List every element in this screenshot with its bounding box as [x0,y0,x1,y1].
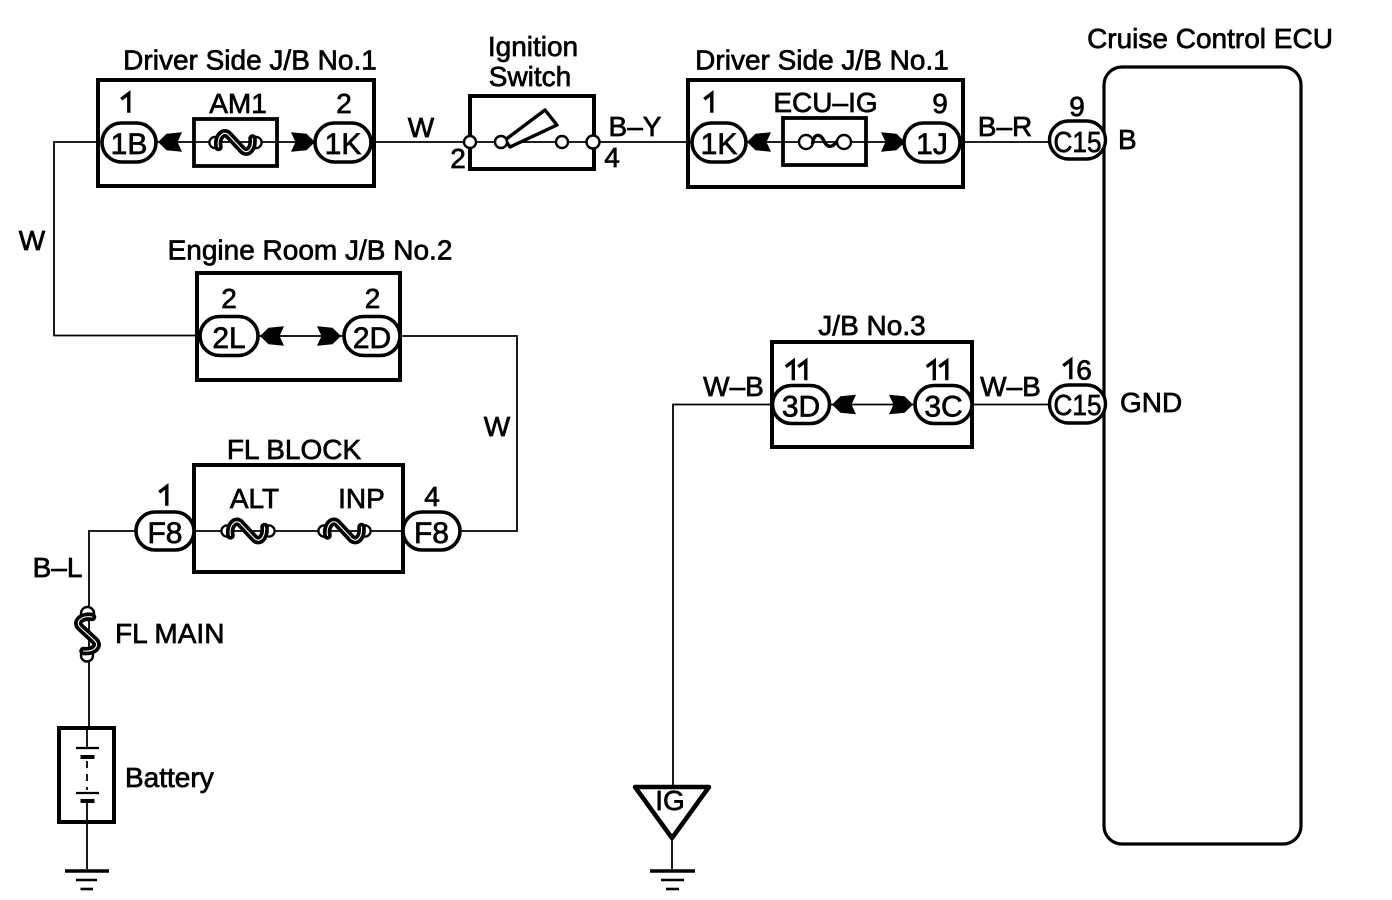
svg-text:W: W [19,225,46,256]
battery [59,728,214,822]
wire W: connector 1B to Engine Room J/B No.2 connector 2L [54,142,200,336]
svg-text:2L: 2L [212,322,245,355]
svg-text:Driver Side J/B No.1: Driver Side J/B No.1 [123,45,377,76]
svg-text:C15: C15 [1054,127,1102,159]
fuse ALT [221,483,279,540]
connector 3C [915,386,972,424]
svg-text:Switch: Switch [489,61,571,92]
svg-text:6: 6 [1076,355,1092,386]
wire label B-R [978,111,1032,142]
pin 1 label (right 1K) [704,94,712,113]
wire W-B: connector 3D to IG ground point [673,405,772,788]
wire: battery negative to ground [86,822,88,869]
pin 1 label (1B) [121,94,129,113]
svg-text:W–B: W–B [703,371,764,402]
ignition switch contact circles [464,136,600,149]
connector 1K (right J/B) [692,123,746,162]
svg-text:4: 4 [604,142,620,173]
svg-text:W: W [484,411,511,442]
svg-text:B–L: B–L [33,552,83,583]
svg-text:FL BLOCK: FL BLOCK [227,434,362,465]
pin 2 label (2D) [365,283,381,314]
svg-text:1K: 1K [701,128,738,161]
junction block: Engine Room J/B No.2 [168,235,453,381]
svg-text:INP: INP [338,483,385,514]
pin 1 label (F8 left) [159,487,167,506]
connector 1J [904,123,960,162]
wire B-R: connector 1J to ECU connector C15 pin 9 [960,141,1050,143]
wire: inside J/B No.3 [829,404,915,406]
wire: bus inside Driver Side J/B No.1 left (through fuse AM1) [156,141,315,143]
node B label [1118,124,1137,155]
svg-text:ECU–IG: ECU–IG [773,87,877,118]
junction block: FL BLOCK [194,434,403,572]
wire B-Y: ignition switch pin 4 to right J/B connector 1K [593,141,692,143]
svg-text:Ignition: Ignition [488,31,578,62]
svg-text:W: W [408,112,435,143]
arrow at right 1K [747,132,771,152]
svg-text:C15: C15 [1054,390,1102,422]
ignition switch [470,31,594,169]
svg-text:B–R: B–R [978,111,1032,142]
arrow at 2L [260,326,284,346]
ground point triangle IG [635,785,709,838]
svg-text:9: 9 [932,88,948,119]
svg-text:2: 2 [365,283,381,314]
wire: battery internal lead [86,728,88,822]
connector 1B [102,123,156,162]
wire W: connector 2D to FL BLOCK connector F8 pin 4 [400,336,517,531]
svg-text:Cruise Control ECU: Cruise Control ECU [1087,23,1333,54]
svg-text:F8: F8 [147,517,182,550]
connector F8 pin 4 [403,512,460,550]
connector 3D [773,386,830,424]
svg-text:9: 9 [1069,91,1085,122]
connector 2L [200,317,258,356]
svg-text:B: B [1118,124,1137,155]
fusible link FL MAIN [78,607,224,662]
wire label W (1K to switch) [408,112,435,143]
wire label B-L [33,552,83,583]
ground (IG) [650,871,695,889]
arrow at 1B [158,132,182,152]
svg-text:Battery: Battery [125,762,214,793]
fuse AM1 [194,88,277,166]
svg-text:F8: F8 [414,517,449,550]
fuse ECU-IG [773,87,877,165]
arrow at 1J [881,132,905,152]
pin 9 label (C15 top) [1069,91,1085,122]
wire: inside ignition switch [470,141,593,143]
svg-text:2: 2 [221,283,237,314]
svg-text:2: 2 [450,143,466,174]
svg-text:1J: 1J [916,128,948,161]
wire label B-Y [609,111,662,142]
arrow at 1K (left J/B) [291,132,315,152]
connector 1K (left J/B) [315,123,371,162]
pin 16 label (C15 bottom) [1063,355,1092,386]
arrow at 3D [832,395,856,415]
junction block: Driver Side J/B No.1 (right) [688,45,963,188]
pin 2 label (ignition switch) [450,143,466,174]
svg-text:AM1: AM1 [209,88,267,119]
ground (battery) [65,871,109,889]
svg-text:Driver Side J/B No.1: Driver Side J/B No.1 [695,45,949,76]
svg-text:B–Y: B–Y [609,111,662,142]
svg-text:2D: 2D [353,322,391,355]
wire label W-B (right) [980,371,1041,402]
wire label W (vertical, left) [19,225,46,256]
pin 4 label (ignition switch) [604,142,620,173]
pin 9 label (1J) [932,88,948,119]
connector F8 pin 1 [136,512,194,550]
pin 2 label (2L) [221,283,237,314]
wire W: connector 1K to ignition switch pin 2 [371,141,470,143]
node GND label [1120,387,1182,418]
svg-text:3C: 3C [924,391,962,424]
wire W-B: connector 3C to ECU connector C15 pin 16 [972,404,1050,406]
wire label W (vertical, right) [484,411,511,442]
wire: bus inside Driver Side J/B No.1 right (through fuse ECU-IG) [746,141,904,143]
pin 4 label (F8 right) [424,481,440,512]
svg-text:IG: IG [655,785,685,816]
svg-text:2: 2 [336,88,352,119]
connector 2D [344,317,400,356]
fuse INP [318,483,384,540]
ECU box: Cruise Control ECU [1087,23,1333,844]
wire label W-B (left) [703,371,764,402]
arrow at 3C [889,395,913,415]
wire: inside Engine Room J/B No.2 [259,335,344,337]
svg-text:1K: 1K [325,128,362,161]
arrow at 2D [317,326,341,346]
junction block: J/B No.3 [772,310,972,447]
ignition switch lever [505,110,557,147]
svg-text:3D: 3D [782,391,820,424]
pin 11 label (3D) [786,361,806,380]
svg-text:1B: 1B [111,128,148,161]
wire: bus inside FL BLOCK (through fuses ALT and INP) [194,530,403,532]
wire: IG triangle to ground [671,838,673,869]
svg-text:J/B No.3: J/B No.3 [818,310,925,341]
pin 11 label (3C) [927,361,947,380]
connector C15 pin 16 [1050,385,1106,423]
connector C15 pin 9 [1050,121,1106,159]
svg-text:W–B: W–B [980,371,1041,402]
svg-text:GND: GND [1120,387,1182,418]
svg-text:ALT: ALT [230,483,279,514]
junction block: Driver Side J/B No.1 (left) [98,45,377,187]
svg-text:4: 4 [424,481,440,512]
wire B-L: connector F8 pin 1 to battery (through FL MAIN) [89,531,136,728]
svg-text:Engine Room J/B No.2: Engine Room J/B No.2 [168,235,453,266]
svg-text:FL MAIN: FL MAIN [115,618,224,649]
pin 2 label (1K) [336,88,352,119]
